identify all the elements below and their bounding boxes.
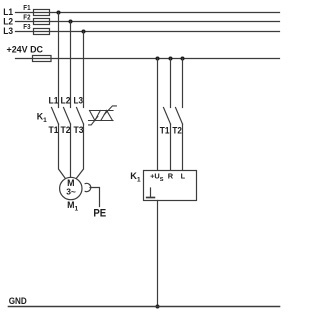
svg-text:F1: F1	[23, 3, 30, 12]
wire L2 drop to contact	[70, 22, 72, 108]
triac symbol (hybrid switching element)	[89, 106, 117, 125]
wire +24V DC	[16, 58, 280, 60]
svg-text:L: L	[181, 172, 186, 181]
svg-text:L1: L1	[49, 96, 59, 106]
wire contact pole3 to motor	[76, 124, 83, 178]
svg-text:F3: F3	[23, 22, 30, 31]
svg-text:GND: GND	[9, 295, 27, 306]
svg-text:T2: T2	[61, 125, 71, 135]
fuse F3	[23, 22, 49, 34]
junction dot GND	[156, 305, 160, 309]
wire drop to contact T1	[170, 59, 172, 108]
wire module to GND	[157, 201, 159, 307]
wire GND	[9, 306, 280, 308]
svg-text:T3: T3	[74, 125, 84, 135]
svg-text:L2: L2	[3, 17, 13, 27]
svg-text:L2: L2	[61, 96, 71, 106]
junction dot +24V c	[181, 57, 185, 61]
svg-text:R: R	[168, 172, 174, 181]
feedback contact T1	[164, 108, 171, 171]
svg-text:L3: L3	[3, 26, 13, 36]
wire PE	[90, 188, 100, 207]
svg-text:T2: T2	[172, 126, 182, 136]
wire +Us supply drop	[157, 59, 159, 171]
relay module box K1	[144, 171, 197, 201]
junction dot +24V b	[169, 57, 173, 61]
fuse F1	[23, 3, 49, 15]
contactor K1 contact pole 2	[64, 108, 71, 125]
junction dot L2	[69, 20, 73, 24]
wire L1	[16, 12, 280, 14]
svg-text:M1: M1	[67, 200, 78, 212]
wire contact pole1 to motor	[59, 124, 66, 178]
svg-text:L1: L1	[3, 7, 13, 17]
PE connection arc on motor	[85, 183, 91, 191]
wire L3 drop to contact	[83, 32, 85, 108]
contactor K1 contact pole 3	[77, 108, 84, 125]
svg-text:T1: T1	[160, 126, 170, 136]
svg-text:3~: 3~	[66, 186, 76, 196]
svg-text:+24V DC: +24V DC	[7, 43, 44, 54]
motor M1	[60, 177, 82, 199]
fuse F4 (24V feed)	[33, 56, 52, 62]
svg-text:K1: K1	[130, 171, 141, 184]
junction dot L3	[82, 30, 86, 34]
svg-text:F2: F2	[23, 13, 30, 22]
contactor K1 contact pole 1	[52, 108, 59, 125]
wire drop to contact T2	[182, 59, 184, 108]
fuse F2	[23, 13, 49, 25]
wire L3	[16, 31, 280, 33]
wire contact pole2 to motor	[70, 124, 72, 177]
junction dot L1	[57, 11, 61, 15]
wire L2	[16, 21, 280, 23]
wire L1 drop to contact	[58, 13, 60, 108]
svg-text:PE: PE	[93, 207, 106, 219]
svg-text:T1: T1	[49, 125, 59, 135]
svg-text:K1: K1	[37, 112, 47, 124]
feedback contact T2	[176, 108, 183, 171]
ground symbol inside module	[147, 188, 155, 198]
svg-text:L3: L3	[74, 96, 84, 106]
junction dot +24V a	[156, 57, 160, 61]
